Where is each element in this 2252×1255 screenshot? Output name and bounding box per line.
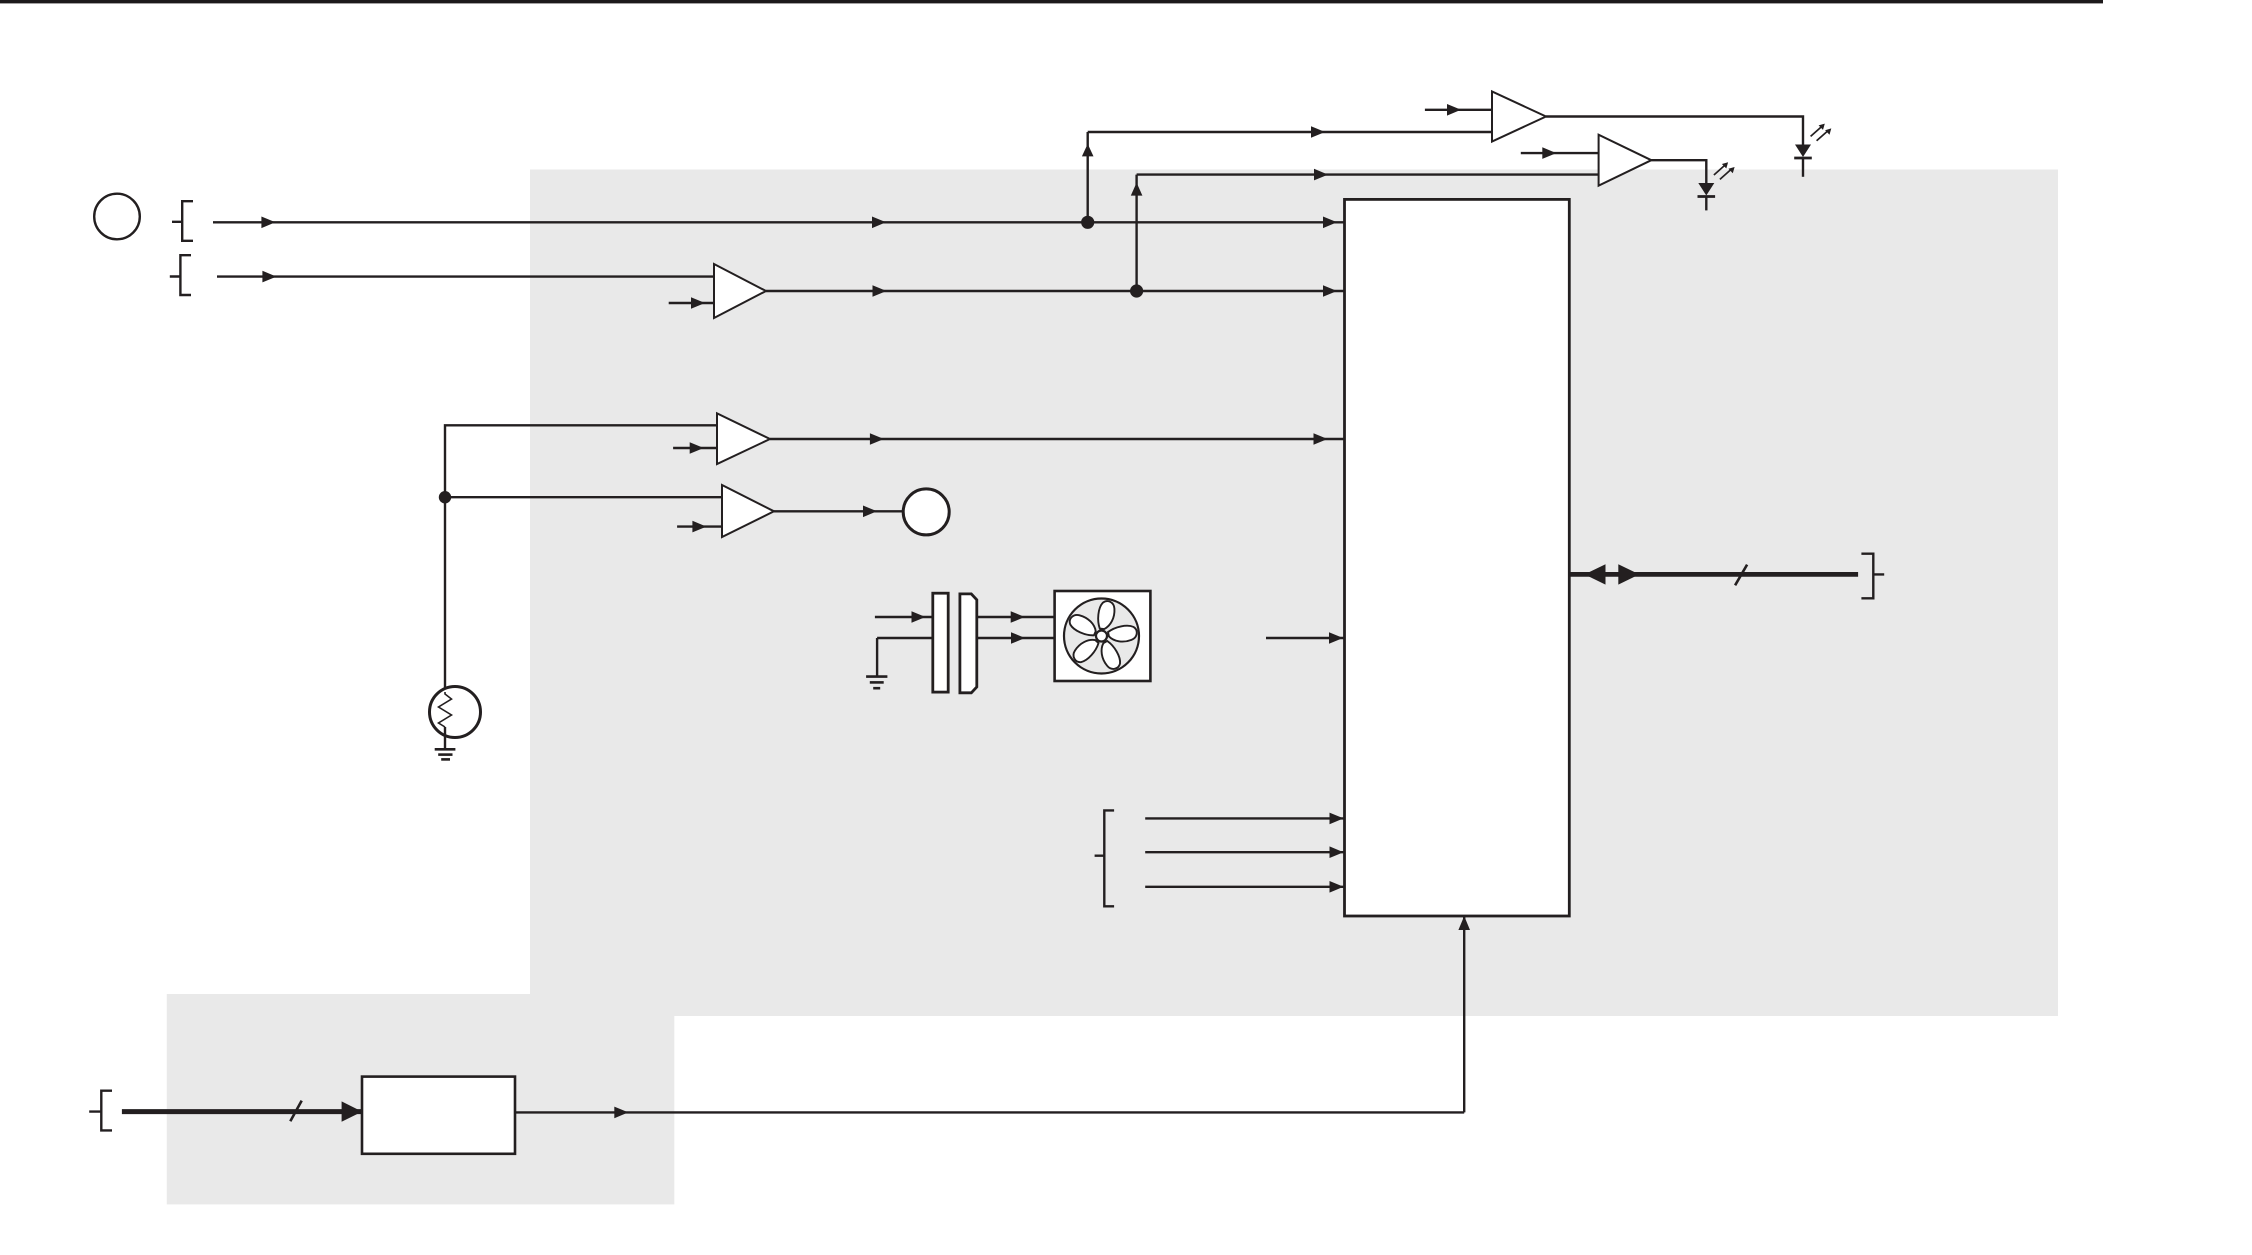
- shaded region main (digital section): [530, 170, 2058, 1017]
- arrowhead config 1: [1330, 813, 1344, 825]
- wire regulator output: [515, 1111, 1464, 1113]
- wire buffer C enable: [677, 525, 722, 527]
- fan blades: [1067, 600, 1138, 671]
- connector bracket (power input): [89, 1091, 112, 1131]
- regulator box: [362, 1077, 515, 1154]
- wire U2 enable input: [1521, 152, 1599, 154]
- wire V3 (node C down to thermistor): [444, 497, 446, 694]
- wire W3a (corner to buffer B): [445, 425, 717, 497]
- power bus line: [122, 1109, 362, 1114]
- buffer A (input 2): [714, 264, 766, 318]
- wire buffer B enable: [673, 447, 717, 449]
- output circle (speaker): [903, 489, 949, 535]
- ground symbol (thermistor): [435, 749, 456, 759]
- wire V2 (node B up to feedback 2): [1135, 175, 1137, 291]
- connector bracket (3-line group): [1095, 810, 1115, 906]
- arrowhead bus right: [1618, 564, 1639, 584]
- arrowhead config 2: [1330, 846, 1344, 858]
- wire config line 1: [1145, 817, 1344, 819]
- wire crystal ground drop: [876, 638, 878, 677]
- wire F1 (feedback 1 to buffer U1): [1088, 131, 1492, 133]
- arrowhead W3b a: [870, 433, 884, 445]
- arrowhead crystal input top: [912, 611, 926, 623]
- wire W4a (node C to buffer C): [445, 496, 722, 498]
- wire W2b (buffer A output to block): [766, 290, 1345, 292]
- crystal plate left: [933, 593, 948, 692]
- wire crystal to fan bottom: [977, 637, 1055, 639]
- wire W4b (buffer C output to circle): [774, 510, 903, 512]
- arrowhead W1 c: [1323, 217, 1337, 229]
- wire W2a (input 2 to buffer A): [217, 275, 714, 277]
- arrowhead U1 enable: [1447, 104, 1461, 116]
- wire crystal to fan top: [977, 616, 1055, 618]
- LED D1 (upper right): [1794, 124, 1831, 177]
- arrowhead buffer C enable: [692, 521, 706, 533]
- wire buffer A enable: [669, 302, 714, 304]
- arrowhead power into block: [1458, 916, 1470, 930]
- top border rule: [0, 0, 2103, 3]
- connector bracket 2: [170, 255, 191, 295]
- buffer U2: [1599, 135, 1652, 186]
- wire U2 output to LED D2: [1651, 160, 1706, 183]
- arrowhead F1: [1311, 126, 1325, 138]
- node B junction dot: [1130, 284, 1143, 297]
- connector bracket 1: [172, 201, 193, 241]
- arrowhead V2 up: [1131, 183, 1143, 196]
- wire W1 (input 1 to block): [213, 221, 1345, 223]
- thermistor zigzag element: [439, 692, 452, 727]
- wire crystal input bottom: [877, 637, 933, 639]
- node A junction dot: [1081, 216, 1094, 229]
- wire config line 2: [1145, 851, 1344, 853]
- thermistor circle RT1: [430, 687, 481, 738]
- arrowhead V1 up: [1082, 144, 1094, 157]
- arrowhead W2b a: [873, 285, 887, 297]
- arrowhead W2b b: [1323, 285, 1337, 297]
- arrowhead regulator output: [614, 1107, 628, 1119]
- arrowhead crystal-fan bottom: [1011, 632, 1025, 644]
- crystal plate right (chamfered): [960, 594, 977, 693]
- shaded region lower-left (power section): [167, 994, 675, 1204]
- arrowhead config 3: [1330, 881, 1344, 893]
- fan hub: [1096, 631, 1107, 642]
- buffer U1: [1492, 92, 1546, 142]
- data bus (bidirectional): [1570, 572, 1858, 577]
- arrowhead U2 enable: [1542, 147, 1556, 159]
- LED D2 (from buffer U2): [1698, 162, 1735, 210]
- bus width slash: [1735, 565, 1747, 586]
- wire W3b (buffer B output to block): [770, 438, 1345, 440]
- wire config line 3: [1145, 886, 1344, 888]
- arrowhead power bus: [342, 1101, 363, 1121]
- wire crystal input top: [875, 616, 933, 618]
- main controller block U3: [1345, 199, 1570, 916]
- arrowhead W2a: [262, 271, 276, 283]
- wire U1 enable input: [1425, 109, 1492, 111]
- wire power up to block: [1463, 917, 1465, 1112]
- arrowhead buffer B enable: [690, 442, 704, 454]
- arrowhead W4b: [863, 506, 877, 518]
- arrowhead W1 a: [261, 217, 275, 229]
- wire clock into block: [1266, 637, 1345, 639]
- arrowhead bus left: [1585, 564, 1606, 584]
- wire U1 output to LED D1: [1546, 117, 1803, 145]
- buffer B: [717, 413, 770, 464]
- node C junction dot: [439, 491, 451, 503]
- fan box: [1055, 591, 1151, 681]
- arrowhead W3b b: [1314, 433, 1328, 445]
- fan circle: [1064, 599, 1139, 674]
- input circle (sensor): [94, 194, 140, 240]
- buffer C: [722, 485, 774, 537]
- arrowhead W1 b: [872, 217, 886, 229]
- arrowhead buffer A enable: [691, 297, 705, 309]
- wire V1 (node A up to feedback 1): [1086, 132, 1088, 222]
- wire thermistor to ground: [444, 727, 446, 749]
- arrowhead F2: [1314, 169, 1328, 181]
- ground symbol (crystal): [866, 677, 887, 689]
- connector bracket (bus right): [1861, 554, 1884, 599]
- power bus slash: [290, 1101, 301, 1122]
- arrowhead crystal-fan top: [1011, 611, 1025, 623]
- wire F2 (feedback 2 to buffer U2): [1137, 173, 1599, 175]
- arrowhead clock into block: [1329, 632, 1343, 644]
